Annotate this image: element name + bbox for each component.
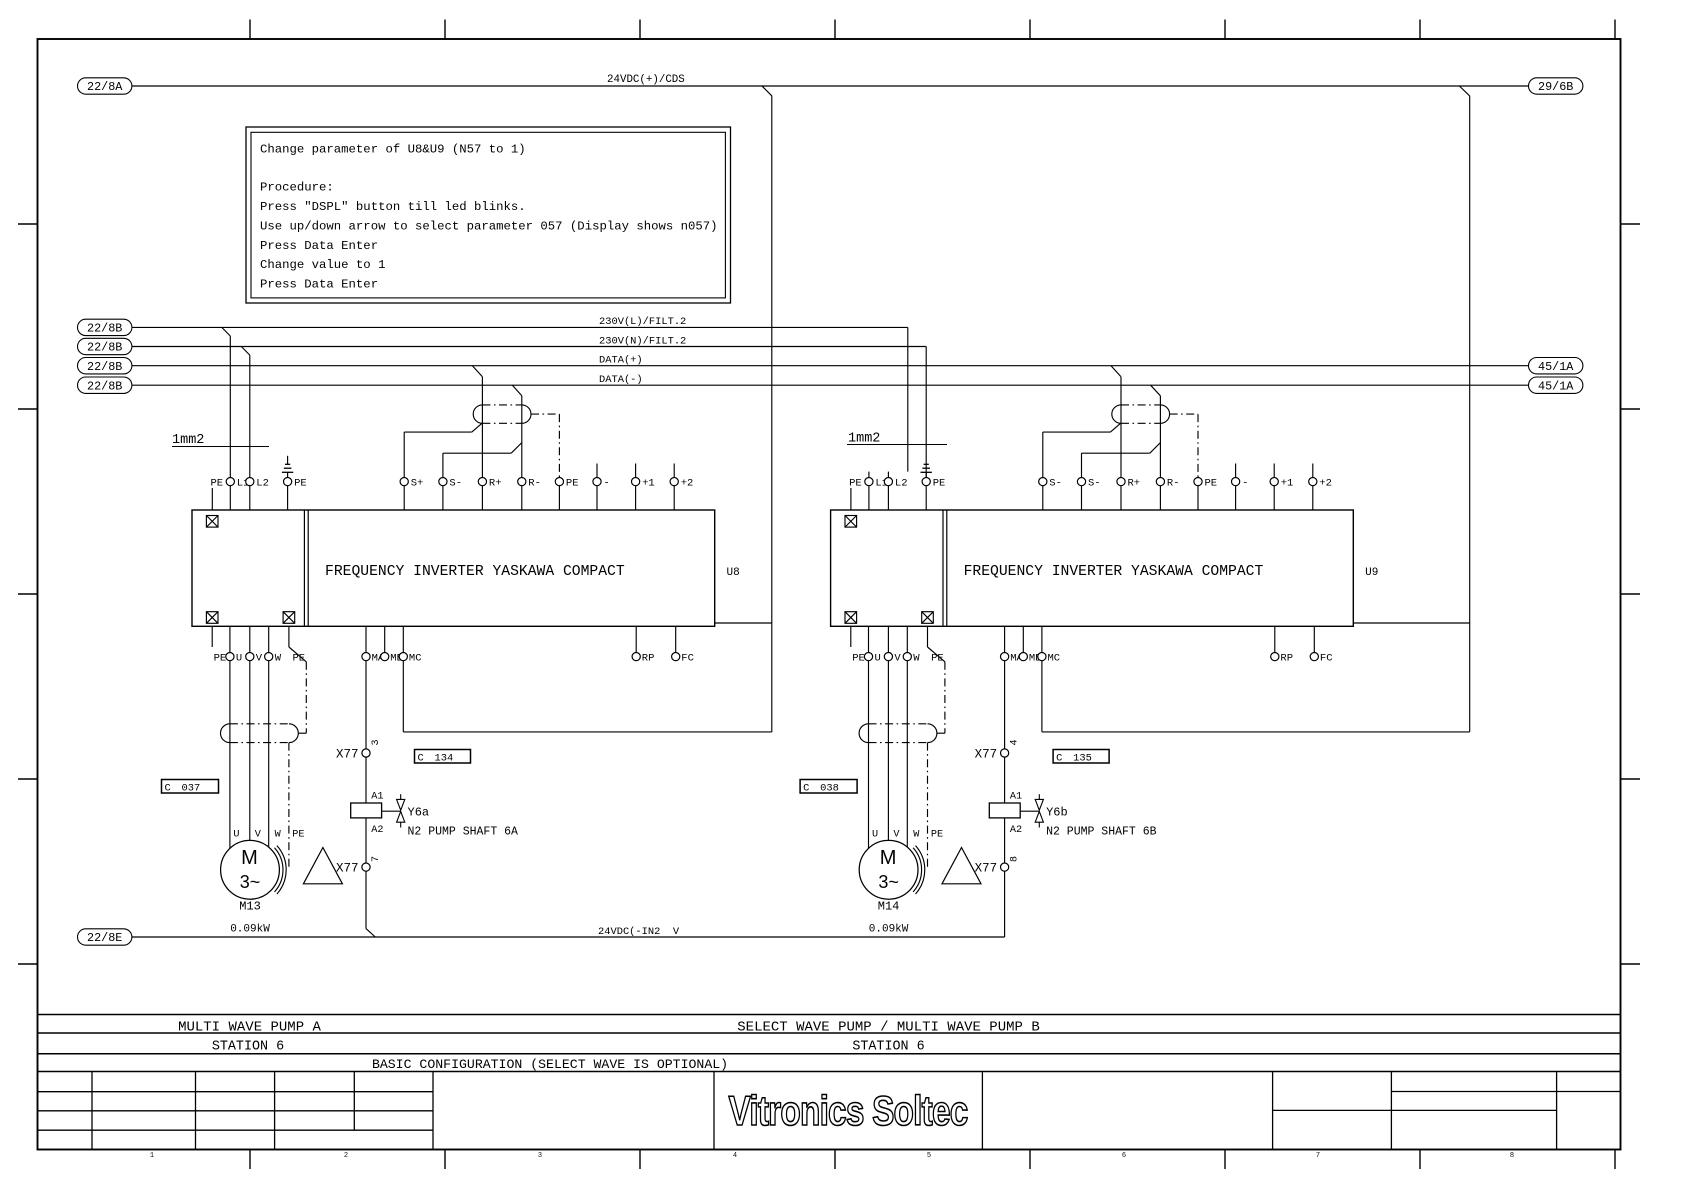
svg-text:PE: PE	[566, 477, 579, 489]
svg-text:R+: R+	[489, 477, 502, 489]
svg-text:-: -	[1242, 477, 1248, 489]
svg-text:U: U	[236, 652, 242, 664]
svg-text:DATA(+): DATA(+)	[599, 355, 643, 367]
svg-text:W: W	[275, 652, 282, 664]
svg-text:Press Data Enter: Press Data Enter	[260, 277, 378, 291]
svg-text:1mm2: 1mm2	[172, 433, 204, 448]
svg-text:A1: A1	[1010, 792, 1022, 803]
svg-text:7: 7	[1316, 1152, 1320, 1160]
svg-text:PE: PE	[931, 652, 944, 664]
svg-text:R+: R+	[1128, 477, 1141, 489]
svg-text:M: M	[241, 847, 258, 869]
svg-text:038: 038	[820, 783, 839, 795]
svg-text:X77: X77	[336, 748, 359, 762]
svg-text:22/8B: 22/8B	[87, 360, 122, 374]
svg-text:N2 PUMP SHAFT 6A: N2 PUMP SHAFT 6A	[408, 825, 519, 838]
svg-text:45/1A: 45/1A	[1538, 379, 1574, 393]
svg-text:C: C	[418, 753, 424, 765]
svg-text:L2: L2	[256, 477, 269, 489]
svg-text:U9: U9	[1365, 567, 1378, 579]
svg-text:FC: FC	[681, 652, 694, 664]
svg-text:Y6a: Y6a	[408, 806, 430, 820]
svg-text:M13: M13	[239, 900, 261, 914]
svg-text:PE: PE	[852, 652, 865, 664]
svg-text:PE: PE	[293, 652, 306, 664]
svg-text:8: 8	[1510, 1152, 1514, 1160]
svg-text:Change parameter of U8&U9 (N57: Change parameter of U8&U9 (N57 to 1)	[260, 143, 526, 157]
svg-text:Procedure:: Procedure:	[260, 181, 334, 195]
svg-text:22/8B: 22/8B	[87, 341, 122, 355]
svg-text:S-: S-	[449, 477, 462, 489]
svg-text:V: V	[894, 652, 901, 664]
svg-text:V: V	[893, 830, 900, 841]
svg-text:6: 6	[1122, 1152, 1126, 1160]
svg-text:Press "DSPL" button till led b: Press "DSPL" button till led blinks.	[260, 200, 526, 214]
svg-text:M: M	[880, 847, 897, 869]
svg-text:A1: A1	[371, 792, 383, 803]
svg-text:R-: R-	[1167, 477, 1180, 489]
svg-text:Use up/down arrow to select pa: Use up/down arrow to select parameter 05…	[260, 220, 718, 234]
svg-text:RP: RP	[642, 652, 655, 664]
svg-text:S-: S-	[1049, 477, 1062, 489]
svg-text:W: W	[913, 652, 920, 664]
svg-text:4: 4	[1010, 739, 1021, 745]
svg-text:W: W	[275, 830, 282, 841]
svg-text:MC: MC	[409, 652, 422, 664]
svg-text:U: U	[233, 830, 239, 841]
svg-text:22/8B: 22/8B	[87, 379, 122, 393]
svg-text:A2: A2	[1010, 825, 1022, 836]
svg-text:U: U	[875, 652, 881, 664]
svg-text:Press Data Enter: Press Data Enter	[260, 239, 378, 253]
svg-text:3~: 3~	[240, 872, 261, 892]
svg-text:V: V	[255, 830, 262, 841]
svg-text:BASIC CONFIGURATION (SELECT WA: BASIC CONFIGURATION (SELECT WAVE IS OPTI…	[372, 1057, 728, 1072]
svg-text:230V(L)/FILT.2: 230V(L)/FILT.2	[599, 316, 686, 328]
svg-text:-: -	[604, 477, 610, 489]
svg-text:X77: X77	[975, 748, 998, 762]
svg-text:STATION 6: STATION 6	[852, 1040, 924, 1055]
svg-text:7: 7	[371, 856, 382, 862]
svg-text:U8: U8	[727, 567, 740, 579]
svg-text:MULTI WAVE PUMP A: MULTI WAVE PUMP A	[178, 1020, 321, 1036]
svg-text:V: V	[256, 652, 263, 664]
svg-text:8: 8	[1010, 856, 1021, 862]
svg-text:PE: PE	[1205, 477, 1218, 489]
svg-text:U: U	[872, 830, 878, 841]
svg-text:S-: S-	[1088, 477, 1101, 489]
svg-text:PE: PE	[214, 652, 227, 664]
svg-text:0.09kW: 0.09kW	[869, 924, 909, 936]
svg-text:29/6B: 29/6B	[1538, 80, 1573, 94]
svg-text:45/1A: 45/1A	[1538, 360, 1574, 374]
svg-text:PE: PE	[931, 830, 943, 841]
svg-text:+2: +2	[1319, 477, 1332, 489]
svg-text:5: 5	[927, 1152, 931, 1160]
svg-text:135: 135	[1073, 753, 1092, 765]
svg-text:L2: L2	[895, 477, 908, 489]
svg-text:FC: FC	[1320, 652, 1333, 664]
svg-text:22/8A: 22/8A	[87, 80, 123, 94]
svg-text:W: W	[913, 830, 920, 841]
svg-text:STATION 6: STATION 6	[212, 1040, 284, 1055]
svg-text:134: 134	[435, 753, 454, 765]
svg-text:SELECT WAVE PUMP / MULTI WAVE: SELECT WAVE PUMP / MULTI WAVE PUMP B	[737, 1020, 1039, 1036]
svg-text:M14: M14	[878, 900, 900, 914]
svg-text:+2: +2	[681, 477, 694, 489]
svg-text:C: C	[1056, 753, 1062, 765]
svg-text:Vitronics Soltec: Vitronics Soltec	[729, 1087, 969, 1134]
svg-text:3~: 3~	[878, 872, 899, 892]
svg-text:230V(N)/FILT.2: 230V(N)/FILT.2	[599, 335, 686, 347]
svg-text:+1: +1	[642, 477, 655, 489]
svg-text:RP: RP	[1280, 652, 1293, 664]
svg-text:FREQUENCY INVERTER YASKAWA COM: FREQUENCY INVERTER YASKAWA COMPACT	[964, 564, 1264, 580]
svg-text:2: 2	[344, 1152, 348, 1160]
svg-text:X77: X77	[336, 862, 359, 876]
svg-text:0.09kW: 0.09kW	[230, 924, 270, 936]
svg-text:X77: X77	[975, 862, 998, 876]
svg-text:PE: PE	[211, 477, 224, 489]
svg-text:R-: R-	[528, 477, 541, 489]
svg-text:3: 3	[371, 739, 382, 745]
svg-text:22/8E: 22/8E	[87, 931, 122, 945]
svg-text:3: 3	[538, 1152, 542, 1160]
svg-text:24VDC(+)/CDS: 24VDC(+)/CDS	[607, 74, 685, 86]
svg-text:+1: +1	[1281, 477, 1294, 489]
svg-text:22/8B: 22/8B	[87, 322, 122, 336]
svg-text:N2 PUMP SHAFT 6B: N2 PUMP SHAFT 6B	[1046, 825, 1157, 838]
svg-text:C: C	[165, 783, 171, 795]
svg-text:1: 1	[150, 1152, 154, 1160]
svg-text:FREQUENCY INVERTER YASKAWA COM: FREQUENCY INVERTER YASKAWA COMPACT	[325, 564, 625, 580]
svg-text:S+: S+	[411, 477, 424, 489]
svg-text:Change value to 1: Change value to 1	[260, 258, 385, 272]
svg-text:037: 037	[182, 783, 201, 795]
svg-text:DATA(-): DATA(-)	[599, 374, 643, 386]
svg-text:PE: PE	[933, 477, 946, 489]
svg-text:MC: MC	[1048, 652, 1061, 664]
svg-text:24VDC(-IN2 V: 24VDC(-IN2 V	[598, 926, 680, 938]
svg-text:PE: PE	[292, 830, 304, 841]
svg-text:Y6b: Y6b	[1046, 806, 1068, 820]
svg-text:4: 4	[733, 1152, 737, 1160]
svg-text:PE: PE	[849, 477, 862, 489]
svg-text:A2: A2	[371, 825, 383, 836]
svg-text:PE: PE	[294, 477, 307, 489]
svg-text:C: C	[803, 783, 809, 795]
